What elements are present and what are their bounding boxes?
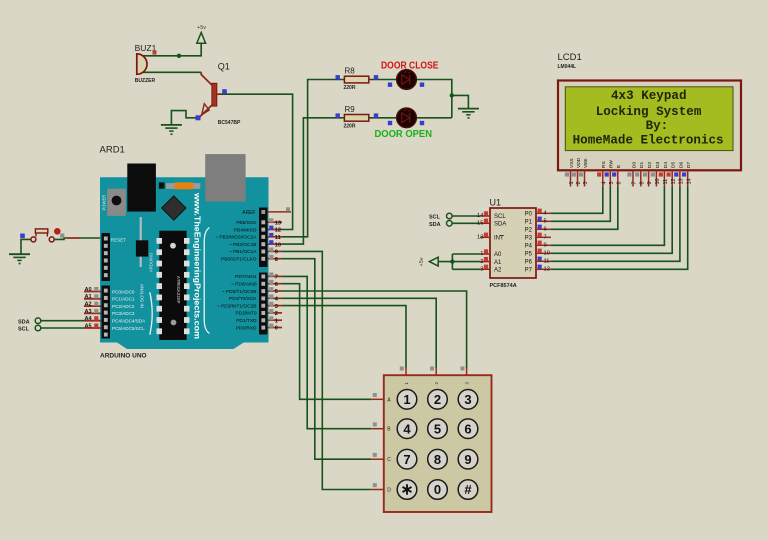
keypad column 1 pin: [405, 368, 407, 376]
svg-text:PC0/ADC0: PC0/ADC0: [112, 289, 135, 294]
svg-text:9: 9: [464, 452, 471, 467]
svg-text:12: 12: [544, 267, 550, 273]
keypad body: [384, 375, 492, 512]
Arduino digital pin 8: [268, 258, 283, 260]
svg-text:Locking System: Locking System: [596, 105, 702, 119]
svg-text:RESET: RESET: [111, 238, 127, 243]
svg-text:POWER: POWER: [102, 195, 107, 211]
keypad column 3 pin: [466, 368, 468, 376]
Arduino digital pin 5: [268, 290, 283, 292]
svg-text:PB5/SCK: PB5/SCK: [236, 220, 257, 226]
terminal SCL: [35, 325, 41, 331]
svg-text:DOOR OPEN: DOOR OPEN: [375, 129, 433, 140]
ground LEDs: [458, 108, 479, 110]
wire pin7 to keypad row B: [282, 276, 371, 428]
keypad button *: [397, 480, 417, 500]
svg-text:SCL: SCL: [18, 327, 30, 333]
svg-text:SDA: SDA: [494, 222, 506, 228]
keypad button 5: [428, 419, 448, 439]
button right marker: [60, 234, 64, 238]
wire pin8 to keypad row C: [282, 259, 371, 460]
svg-text:7: 7: [275, 275, 278, 281]
svg-text:PD1/TXD: PD1/TXD: [236, 318, 257, 324]
svg-text:HomeMade Electronics: HomeMade Electronics: [573, 133, 724, 147]
U1 pin 4 P0: [536, 212, 551, 214]
Arduino digital pin 4: [268, 297, 283, 299]
U1 pin 1 A0: [480, 253, 490, 255]
svg-text:RS: RS: [601, 161, 607, 168]
terminal SCL at U1: [447, 213, 453, 219]
svg-text:BC547BP: BC547BP: [218, 120, 241, 126]
Arduino digital pin 2: [268, 312, 283, 314]
wire Q1 base to Arduino pin 12: [219, 94, 293, 229]
svg-text:P3: P3: [525, 236, 533, 242]
Arduino right header top: [259, 208, 268, 268]
keypad button #: [458, 480, 478, 500]
svg-text:A3: A3: [85, 309, 92, 315]
svg-text:5: 5: [275, 289, 278, 295]
svg-text:7: 7: [632, 182, 638, 185]
svg-text:A1: A1: [494, 260, 502, 266]
Arduino AREF pin: [268, 211, 292, 213]
wire U1 P4 to LCD D4: [551, 187, 664, 246]
keypad button 7: [397, 449, 417, 469]
Arduino power jack: [127, 164, 156, 212]
U1 pin 11 P6: [536, 260, 551, 262]
svg-text:2: 2: [434, 392, 441, 407]
junction buzzer-top: [177, 54, 181, 58]
wire reset button to ground: [21, 239, 31, 254]
svg-text:PB0/ICP1/CLKO: PB0/ICP1/CLKO: [221, 257, 257, 263]
svg-text:www.TheEngineeringProjects.com: www.TheEngineeringProjects.com: [193, 192, 202, 339]
svg-text:+5v: +5v: [419, 257, 425, 266]
svg-text:SCL: SCL: [429, 215, 441, 221]
svg-text:PC1/ADC1: PC1/ADC1: [112, 297, 135, 302]
svg-text:1: 1: [275, 318, 278, 324]
svg-text:8: 8: [275, 257, 278, 263]
Arduino digital pin 6: [268, 283, 283, 285]
U1 pin 10 P5: [536, 252, 551, 254]
Arduino analog pin A2: [84, 305, 102, 307]
svg-text:VEE: VEE: [583, 158, 589, 168]
svg-text:E: E: [616, 165, 622, 168]
junction LED ground tee: [450, 93, 454, 97]
Arduino digital pin 1: [268, 319, 283, 321]
LED D1 DOOR CLOSE: [397, 70, 417, 90]
svg-text:#: #: [464, 482, 472, 497]
Arduino diamond: [162, 196, 186, 220]
svg-text:14: 14: [477, 213, 484, 219]
wire U1 P0 to LCD RS: [551, 187, 603, 214]
resistor R8: [344, 76, 368, 83]
svg-text:8: 8: [639, 182, 645, 185]
svg-text:A0: A0: [85, 287, 92, 293]
Arduino left header top: [102, 233, 111, 281]
keypad button 4: [397, 419, 417, 439]
svg-text:1: 1: [403, 392, 410, 407]
svg-text:14: 14: [686, 179, 692, 185]
Q1 base marker: [222, 89, 227, 94]
U1 pin 7 P3: [536, 236, 551, 238]
svg-text:2: 2: [480, 259, 483, 265]
svg-text:3: 3: [464, 392, 471, 407]
svg-text:11: 11: [275, 235, 281, 241]
svg-text:A1: A1: [85, 294, 92, 300]
wire U1 P5 to LCD D5: [551, 187, 672, 254]
Arduino digital pin 10: [268, 243, 283, 245]
svg-text:PD0/RXD: PD0/RXD: [236, 325, 257, 331]
Arduino brace digital pins: [204, 228, 209, 334]
U1 pin 2 A1: [480, 261, 490, 263]
svg-text:BUZZER: BUZZER: [135, 78, 156, 84]
ground Q1 emitter: [161, 124, 182, 126]
svg-text:U1: U1: [490, 198, 502, 208]
svg-text:5: 5: [609, 182, 615, 185]
svg-text:ANALOG IN: ANALOG IN: [140, 284, 145, 308]
svg-text:11: 11: [663, 179, 669, 185]
LCD LM044L body: [558, 81, 741, 171]
svg-text:1: 1: [480, 251, 483, 257]
svg-text:~ PB2/OC1B: ~ PB2/OC1B: [229, 242, 257, 248]
svg-text:R9: R9: [345, 105, 356, 114]
keypad row C pin: [371, 458, 384, 460]
Arduino digital pin 0: [268, 327, 283, 329]
svg-text:SCL: SCL: [494, 214, 506, 220]
svg-text:PD2/INT0: PD2/INT0: [235, 311, 256, 317]
svg-text:0: 0: [275, 326, 278, 332]
Arduino digital pin 3: [268, 305, 283, 307]
Arduino analog pin A5: [84, 327, 102, 329]
svg-text:0: 0: [434, 482, 441, 497]
wire buzzer top to +5V: [142, 44, 201, 56]
svg-text:PC5/ADC5/SCL: PC5/ADC5/SCL: [112, 326, 145, 331]
svg-text:2: 2: [576, 182, 582, 185]
svg-text:SDA: SDA: [18, 319, 30, 325]
svg-text:3: 3: [480, 267, 483, 273]
wire LED D1 to ground net: [416, 80, 452, 118]
svg-text:13: 13: [477, 235, 483, 241]
Arduino inductor component: [166, 183, 200, 189]
svg-text:P0: P0: [525, 212, 533, 218]
svg-text:3: 3: [583, 182, 589, 185]
svg-text:D7: D7: [686, 162, 692, 168]
U1 pin 5 P1: [536, 220, 551, 222]
svg-text:PC4/ADC4/SDA: PC4/ADC4/SDA: [112, 319, 146, 324]
wire Q1 emitter to ground: [171, 111, 196, 125]
svg-text:9: 9: [647, 182, 653, 185]
svg-text:11: 11: [544, 259, 550, 265]
svg-text:10: 10: [544, 251, 550, 257]
ground reset button: [9, 253, 30, 255]
wire U1 P7 to LCD D7: [551, 187, 688, 270]
svg-text:6: 6: [275, 282, 278, 288]
wire pin3 to keypad column 1: [282, 306, 406, 369]
svg-text:~ PD6/AIN0: ~ PD6/AIN0: [231, 282, 257, 288]
svg-text:VSS: VSS: [569, 158, 575, 168]
U1 pin 12 P7: [536, 268, 551, 270]
svg-text:6: 6: [544, 227, 547, 233]
svg-text:D2: D2: [647, 162, 653, 168]
wire SCL terminal to U1: [452, 215, 480, 217]
svg-text:4: 4: [403, 421, 411, 436]
LED D2 DOOR OPEN: [397, 108, 417, 128]
svg-text:LCD1: LCD1: [558, 52, 582, 63]
svg-text:P2: P2: [525, 228, 533, 234]
keypad button 3: [458, 390, 478, 410]
svg-text:~ PD5/T1/OC0B: ~ PD5/T1/OC0B: [222, 289, 257, 295]
svg-text:ARDUINO: ARDUINO: [149, 252, 154, 272]
keypad button 9: [458, 449, 478, 469]
svg-text:P5: P5: [525, 252, 533, 258]
svg-text:D: D: [387, 488, 391, 494]
LED D2 markers: [388, 121, 392, 125]
terminal SDA: [35, 318, 41, 324]
svg-text:P6: P6: [525, 260, 533, 266]
wire pin6 to keypad row A: [282, 284, 371, 400]
Arduino board ARD1: [100, 177, 269, 349]
svg-text:4: 4: [601, 182, 607, 185]
svg-text:D5: D5: [671, 162, 677, 168]
svg-text:P4: P4: [525, 244, 533, 250]
svg-text:Q1: Q1: [218, 62, 230, 72]
svg-text:4x3 Keypad: 4x3 Keypad: [611, 89, 687, 103]
wire reset button to RESET pin: [54, 238, 101, 239]
Q1 emitter marker: [196, 115, 201, 120]
Arduino left header bottom: [102, 286, 111, 339]
svg-text:6: 6: [464, 421, 471, 436]
svg-text:5: 5: [544, 219, 547, 225]
svg-text:+5v: +5v: [197, 25, 206, 31]
LCD green screen: [565, 87, 733, 151]
buzzer BUZ1: [137, 54, 147, 74]
svg-text:DOOR CLOSE: DOOR CLOSE: [381, 61, 439, 72]
keypad row A pin: [371, 398, 384, 400]
svg-text:INT: INT: [494, 236, 504, 242]
svg-text:~ PB3/MOSI/OC2A: ~ PB3/MOSI/OC2A: [215, 235, 257, 241]
wire pin9 to keypad row D: [282, 251, 371, 489]
power +5v arrow at U1: [429, 257, 438, 266]
wire U1 P1 to LCD RW: [551, 187, 610, 222]
U1 pin 6 P2: [536, 228, 551, 230]
button left marker: [20, 234, 25, 239]
wire U1 P6 to LCD D6: [551, 187, 680, 262]
wire SDA terminal to U1: [452, 222, 480, 224]
U1 pin 13 INT: [480, 236, 490, 238]
Arduino analog pin A3: [84, 312, 102, 314]
svg-text:PC2/ADC2: PC2/ADC2: [112, 304, 135, 309]
svg-text:12: 12: [671, 179, 677, 185]
Arduino digital pin 9: [268, 250, 283, 252]
wire pin10 to R9: [282, 118, 344, 244]
wire pin4 to keypad column 2: [282, 298, 436, 368]
svg-text:SDA: SDA: [429, 222, 441, 228]
svg-text:PD4/T0/XCK: PD4/T0/XCK: [229, 296, 257, 302]
svg-text:~ PB1/OC1A: ~ PB1/OC1A: [229, 249, 257, 255]
svg-text:PD7/AIN1: PD7/AIN1: [235, 274, 257, 280]
svg-text:A0: A0: [494, 252, 502, 258]
svg-text:PC3/ADC3: PC3/ADC3: [112, 311, 135, 316]
svg-text:7: 7: [544, 235, 547, 241]
U1 pin 3 A2: [480, 268, 490, 270]
Arduino digital pin 12: [268, 229, 283, 231]
keypad row B pin: [371, 428, 384, 430]
svg-text:R8: R8: [345, 67, 356, 76]
terminal SDA at U1: [447, 221, 453, 227]
Arduino right header bottom: [259, 273, 268, 335]
wire SDA terminal to A4: [41, 320, 84, 322]
wire +5v to A0 A1 A2: [438, 261, 480, 263]
svg-text:D4: D4: [663, 162, 669, 168]
wire pin5 to keypad column 3: [282, 291, 467, 368]
svg-text:3: 3: [275, 304, 278, 310]
Arduino USB connector: [205, 154, 245, 201]
svg-text:220R: 220R: [344, 124, 356, 130]
svg-text:ATMEGA328P: ATMEGA328P: [175, 276, 181, 304]
Arduino black square IO: [159, 182, 165, 188]
svg-text:6: 6: [616, 182, 622, 185]
svg-text:D0: D0: [631, 162, 637, 168]
svg-text:8: 8: [434, 452, 441, 467]
wire R8 to LED D1: [369, 79, 397, 81]
keypad button 6: [458, 419, 478, 439]
svg-text:P7: P7: [525, 268, 533, 274]
svg-text:7: 7: [403, 452, 410, 467]
Arduino digital pin 13: [268, 221, 283, 223]
svg-text:A5: A5: [85, 323, 92, 329]
svg-text:9: 9: [275, 250, 278, 256]
svg-text:9: 9: [544, 243, 547, 249]
push button RESET: [31, 228, 61, 242]
wire R9 to LED D2 and to vertical: [369, 117, 452, 119]
svg-text:By:: By:: [646, 119, 669, 133]
Arduino capacitor block: [107, 189, 126, 216]
svg-text:AREF: AREF: [242, 210, 255, 216]
svg-text:10: 10: [275, 242, 281, 248]
svg-text:PCF8574A: PCF8574A: [490, 283, 517, 289]
keypad button 2: [428, 390, 448, 410]
wire tee to ground: [452, 95, 469, 108]
keypad button 0: [428, 480, 448, 500]
svg-text:RW: RW: [609, 160, 615, 168]
Arduino digital pin 11: [268, 236, 283, 238]
svg-text:P1: P1: [525, 220, 533, 226]
op-amp U1 PCF8574A body: [490, 208, 536, 278]
svg-text:D3: D3: [655, 162, 661, 168]
svg-text:D6: D6: [678, 162, 684, 168]
svg-text:220R: 220R: [344, 85, 356, 91]
svg-text:12: 12: [275, 228, 281, 234]
power +5V arrow top: [197, 33, 206, 44]
svg-text:13: 13: [679, 179, 685, 185]
svg-text:A4: A4: [85, 316, 93, 322]
svg-text:D1: D1: [639, 162, 645, 168]
svg-text:~ PD3/INT1/OC2B: ~ PD3/INT1/OC2B: [217, 303, 257, 309]
LED D1 markers: [388, 83, 392, 87]
svg-text:A2: A2: [85, 302, 92, 308]
transistor Q1: [200, 72, 220, 117]
svg-text:10: 10: [655, 179, 661, 185]
Arduino crystal and line: [140, 217, 142, 267]
U1 pin 15 SDA: [480, 222, 490, 224]
wire pin11 to R8: [282, 80, 344, 237]
keypad row D pin: [371, 489, 384, 491]
svg-text:ARDUINO UNO: ARDUINO UNO: [100, 353, 147, 360]
Arduino ATMEGA328P chip: [157, 231, 190, 340]
resistor R9: [344, 115, 368, 122]
svg-text:15: 15: [477, 221, 483, 227]
svg-text:LM044L: LM044L: [558, 64, 577, 70]
Arduino brace analog pins: [150, 292, 152, 334]
keypad column 2 pin: [435, 368, 437, 376]
svg-text:ARD1: ARD1: [100, 145, 125, 156]
Arduino analog pin A1: [84, 298, 102, 300]
wire U1 P2 to LCD E: [551, 187, 618, 230]
U1 pin 9 P4: [536, 244, 551, 246]
Arduino analog pin A0: [84, 291, 102, 293]
svg-text:A2: A2: [494, 268, 502, 274]
svg-text:C: C: [387, 457, 391, 463]
keypad button 8: [428, 449, 448, 469]
Arduino RESET pin stub: [66, 237, 80, 239]
svg-text:1: 1: [569, 182, 575, 185]
keypad button 1: [397, 390, 417, 410]
Arduino digital pin 7: [268, 275, 283, 277]
wire buzzer bottom to Q1 collector: [142, 71, 201, 73]
svg-text:VDD: VDD: [576, 157, 582, 168]
svg-text:PB4/MISO: PB4/MISO: [234, 227, 257, 233]
svg-text:13: 13: [275, 220, 281, 226]
svg-text:2: 2: [275, 311, 278, 317]
junction U1 address pins: [450, 259, 454, 263]
svg-text:5: 5: [434, 421, 441, 436]
wire SCL terminal to A5: [41, 327, 84, 329]
U1 pin 14 SCL: [480, 215, 490, 217]
Arduino analog pin A4: [84, 320, 102, 322]
